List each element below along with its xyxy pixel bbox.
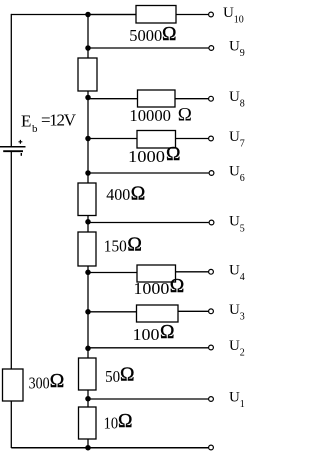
wire bus segment bottom bbox=[87, 439, 89, 448]
resistor R100 box bbox=[137, 305, 179, 322]
label battery Eb = 12V bbox=[21, 111, 77, 136]
terminal U7 bbox=[209, 136, 214, 141]
terminal U3 bbox=[209, 309, 214, 314]
terminal U2 bbox=[209, 345, 214, 350]
wire left vertical bottom (300 ohm to bottom rail) bbox=[10, 401, 12, 448]
wire bus segment 4 bbox=[87, 266, 89, 358]
wire row U3 left bbox=[88, 311, 137, 313]
wire row U5 bbox=[88, 222, 209, 224]
svg-text:10: 10 bbox=[104, 414, 119, 433]
wire row U1 bbox=[88, 398, 209, 400]
terminal U1 bbox=[209, 397, 214, 402]
svg-text:Ω: Ω bbox=[166, 144, 181, 165]
battery Eb plate positive (long thin) bbox=[0, 146, 26, 148]
terminal bottom bbox=[209, 445, 214, 450]
resistor R150 box bbox=[78, 232, 96, 266]
svg-text:U: U bbox=[229, 89, 240, 105]
svg-text:Ω: Ω bbox=[50, 371, 64, 392]
battery minus sign bbox=[20, 153, 22, 156]
svg-text:50: 50 bbox=[105, 367, 120, 386]
wire row U10 left bbox=[88, 14, 136, 16]
svg-text:Ω: Ω bbox=[178, 105, 192, 126]
svg-text:10000: 10000 bbox=[129, 106, 171, 125]
svg-text:U: U bbox=[229, 390, 240, 406]
svg-text:U: U bbox=[229, 39, 240, 55]
svg-text:100: 100 bbox=[133, 325, 160, 344]
junction node bus top bbox=[85, 12, 91, 18]
wire left vertical upper (battery + to top) bbox=[10, 14, 12, 146]
resistor R50 box bbox=[79, 358, 97, 390]
resistor R10000 box bbox=[138, 90, 176, 107]
wire row U8 left bbox=[88, 98, 138, 100]
svg-text:3: 3 bbox=[240, 311, 245, 322]
svg-text:150: 150 bbox=[104, 237, 127, 256]
svg-text:U: U bbox=[229, 164, 240, 180]
svg-text:U: U bbox=[229, 302, 240, 318]
wire bottom rail bbox=[11, 447, 208, 449]
wire row U4 right bbox=[176, 271, 209, 273]
svg-text:8: 8 bbox=[240, 99, 245, 110]
resistor RV1 box (unlabeled) bbox=[78, 58, 97, 91]
terminal U10 bbox=[209, 12, 214, 17]
svg-text:=12V: =12V bbox=[41, 111, 77, 130]
wire row U8 right bbox=[175, 98, 209, 100]
svg-text:Ω: Ω bbox=[170, 276, 185, 297]
wire row U10 right bbox=[176, 14, 209, 16]
svg-text:7: 7 bbox=[240, 139, 245, 150]
wire row U3 right bbox=[178, 310, 209, 312]
junction node U7 bbox=[85, 136, 91, 142]
wire left vertical lower (battery - to 300 ohm) bbox=[10, 152, 12, 369]
svg-text:5: 5 bbox=[240, 224, 245, 235]
svg-text:1000: 1000 bbox=[128, 147, 165, 166]
junction node bottom bbox=[85, 445, 91, 451]
wire row U6 bbox=[88, 172, 209, 174]
svg-text:Ω: Ω bbox=[160, 322, 175, 343]
resistor R1000b box bbox=[137, 265, 176, 282]
resistor R10 box bbox=[79, 407, 97, 439]
svg-text:Ω: Ω bbox=[120, 365, 135, 386]
svg-text:6: 6 bbox=[240, 173, 245, 184]
junction node U5 bbox=[85, 219, 91, 225]
junction node U9 bbox=[85, 45, 91, 51]
terminal U4 bbox=[209, 269, 214, 274]
wire row U9 bbox=[88, 47, 209, 49]
svg-text:Ω: Ω bbox=[127, 235, 141, 256]
junction node U6 bbox=[85, 170, 91, 176]
svg-text:Ω: Ω bbox=[118, 411, 133, 432]
svg-text:Ω: Ω bbox=[162, 24, 177, 45]
terminal U8 bbox=[209, 96, 214, 101]
svg-text:5000: 5000 bbox=[129, 26, 162, 45]
svg-text:U: U bbox=[229, 129, 240, 145]
svg-text:300: 300 bbox=[29, 374, 50, 393]
wire row U4 left bbox=[88, 272, 137, 274]
junction node U8 bbox=[85, 95, 91, 101]
resistor R300 box bbox=[3, 369, 24, 401]
battery plus sign bbox=[19, 140, 23, 144]
resistor R1000a box bbox=[137, 131, 176, 149]
svg-text:1000: 1000 bbox=[133, 279, 169, 298]
wire top from battery to bus and R 5000 bbox=[11, 14, 136, 16]
wire bus segment 3 bbox=[87, 216, 89, 233]
svg-text:400: 400 bbox=[106, 185, 130, 204]
svg-text:1: 1 bbox=[240, 399, 245, 410]
svg-text:4: 4 bbox=[240, 272, 245, 283]
battery Eb plate negative (short thick) bbox=[3, 150, 23, 152]
wire row U7 left bbox=[88, 138, 137, 140]
junction node U3 bbox=[85, 309, 91, 315]
terminal U5 bbox=[209, 220, 214, 225]
resistor R400 box bbox=[78, 183, 96, 216]
svg-text:E: E bbox=[21, 112, 31, 131]
wire row U2 bbox=[88, 347, 209, 349]
terminal U6 bbox=[209, 171, 214, 176]
terminal U9 bbox=[209, 46, 214, 51]
svg-text:Ω: Ω bbox=[131, 184, 146, 205]
wire row U7 right bbox=[176, 138, 209, 140]
junction node U4 bbox=[85, 270, 91, 276]
resistor R5000 box bbox=[136, 6, 176, 24]
svg-text:b: b bbox=[32, 123, 38, 135]
svg-text:9: 9 bbox=[240, 48, 245, 59]
svg-text:10: 10 bbox=[234, 15, 244, 26]
junction node U2 bbox=[85, 346, 91, 352]
junction node U1 bbox=[85, 396, 91, 402]
wire bus segment top bbox=[87, 15, 89, 59]
wire bus segment 2 bbox=[87, 91, 89, 183]
svg-text:U: U bbox=[223, 5, 234, 21]
svg-text:U: U bbox=[229, 338, 240, 354]
svg-text:U: U bbox=[229, 262, 240, 278]
svg-text:U: U bbox=[229, 214, 240, 230]
wire bus segment 5 bbox=[87, 390, 89, 407]
svg-text:2: 2 bbox=[240, 348, 245, 359]
